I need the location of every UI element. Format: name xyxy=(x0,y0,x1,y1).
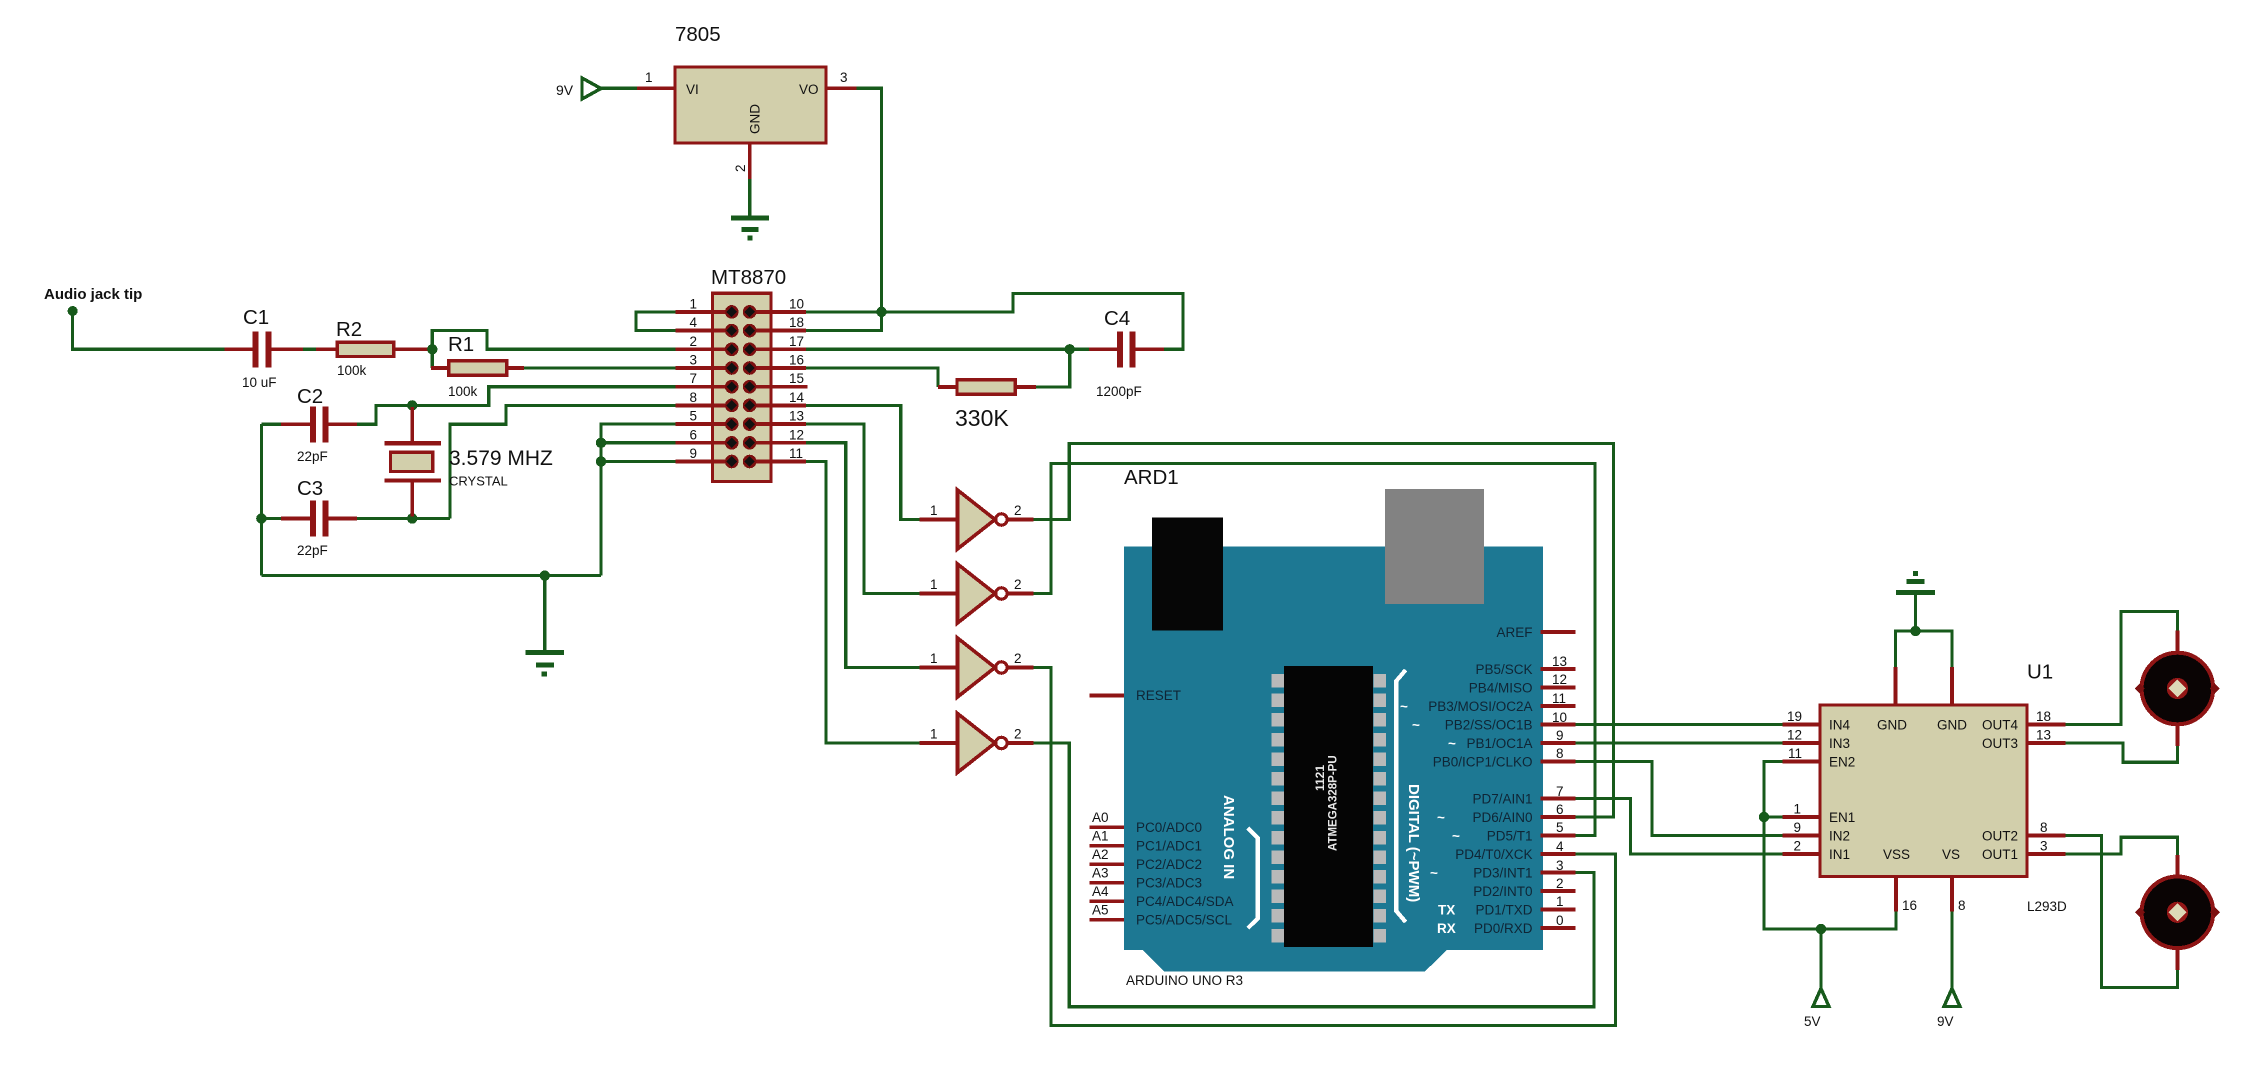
svg-text:19: 19 xyxy=(1787,709,1802,724)
pin A1 PC1/ADC1 xyxy=(1089,829,1202,854)
svg-text:A3: A3 xyxy=(1092,866,1109,881)
svg-text:PC1/ADC1: PC1/ADC1 xyxy=(1136,839,1202,854)
node L293D ground junction xyxy=(1910,626,1920,636)
wire C1 to R2 xyxy=(303,348,316,351)
svg-text:VSS: VSS xyxy=(1883,847,1910,862)
svg-text:PB3/MOSI/OC2A: PB3/MOSI/OC2A xyxy=(1428,699,1532,714)
svg-text:IN2: IN2 xyxy=(1829,829,1850,844)
L293D pin 16 VSS stub xyxy=(1896,877,1917,914)
svg-text:18: 18 xyxy=(2036,709,2051,724)
svg-text:2: 2 xyxy=(689,334,697,349)
wire ARD pin9 to L293D IN3 xyxy=(1576,741,1783,744)
svg-text:2: 2 xyxy=(733,164,748,172)
pin 8 PB0/ICP1/CLKO xyxy=(1433,746,1576,770)
svg-text:~: ~ xyxy=(1400,699,1408,714)
svg-text:7: 7 xyxy=(1556,784,1564,799)
svg-text:2: 2 xyxy=(1793,839,1801,854)
svg-text:C3: C3 xyxy=(297,477,323,500)
pin 0 PD0/RXD xyxy=(1437,913,1576,936)
svg-text:12: 12 xyxy=(1787,728,1802,743)
svg-text:EN1: EN1 xyxy=(1829,810,1855,825)
node Audio jack tip label xyxy=(44,286,142,303)
inverter U6 NOT gate 4 xyxy=(919,714,1033,773)
wire pin10 to C4 loop top xyxy=(806,293,1183,349)
wire ground rail xyxy=(261,574,601,577)
svg-text:GND: GND xyxy=(1877,718,1907,733)
pin A5 PC5/ADC5/SCL xyxy=(1089,903,1232,928)
wire pin14 to inverter1 input xyxy=(806,405,919,519)
wire pin1-pin4 U link xyxy=(636,312,675,331)
wire pin12 to inverter3 input xyxy=(806,443,919,668)
wire inverter1 output to ARD pin6 rail xyxy=(1034,444,1614,817)
svg-text:ATMEGA328P-PU: ATMEGA328P-PU xyxy=(1328,755,1340,851)
svg-text:16: 16 xyxy=(789,353,804,368)
wire pin13 to inverter2 input xyxy=(806,424,919,593)
wire inverter4 output to ARD pin3 rail xyxy=(1034,743,1595,1007)
L293D pin 11 EN2 stub xyxy=(1783,746,1821,762)
wire left vertical C2/C3 to ground rail xyxy=(260,424,263,575)
MT8870 pin 14 xyxy=(750,390,806,406)
pin A4 PC4/ADC4/SDA xyxy=(1089,884,1233,909)
inverter U3 NOT gate 1 xyxy=(919,490,1033,549)
svg-text:1: 1 xyxy=(1556,894,1564,909)
wire pin16 to 330K xyxy=(806,368,938,387)
MT8870 pin 17 xyxy=(750,334,806,350)
pin 4 PD4/T0/XCK xyxy=(1455,839,1575,862)
node EN1 junction xyxy=(1759,812,1769,822)
wire pin8 to crystal bottom row xyxy=(450,405,675,518)
svg-text:C2: C2 xyxy=(297,385,323,408)
power flag 9V motor supply xyxy=(1937,912,1960,1030)
svg-text:OUT2: OUT2 xyxy=(1982,829,2018,844)
svg-text:5: 5 xyxy=(689,409,697,424)
wire pin18 up to junction xyxy=(806,312,882,331)
L293D pin 1 EN1 stub xyxy=(1783,802,1821,818)
wire 9V to 7805 VI xyxy=(601,87,637,90)
svg-text:5: 5 xyxy=(1556,820,1564,835)
svg-text:10: 10 xyxy=(789,296,804,311)
svg-text:PC3/ADC3: PC3/ADC3 xyxy=(1136,876,1202,891)
svg-text:8: 8 xyxy=(1958,898,1966,913)
wire R1 to pin3 xyxy=(524,366,675,369)
label DIGITAL PWM xyxy=(1396,670,1422,922)
MT8870 pin 2 xyxy=(675,334,731,350)
pin RESET xyxy=(1089,688,1181,703)
node ground rail junction xyxy=(540,570,550,580)
svg-text:DIGITAL (~PWM): DIGITAL (~PWM) xyxy=(1405,784,1422,902)
svg-text:1121: 1121 xyxy=(1313,765,1327,791)
ground symbol below 7805 xyxy=(731,218,769,238)
svg-text:ARD1: ARD1 xyxy=(1124,466,1179,489)
svg-text:PC0/ADC0: PC0/ADC0 xyxy=(1136,820,1202,835)
wire inverter2 output to ARD pin5 rail xyxy=(1034,464,1596,836)
wire pin6 row xyxy=(601,441,675,444)
svg-text:5V: 5V xyxy=(1804,1014,1821,1029)
pin A0 PC0/ADC0 xyxy=(1089,810,1202,835)
wire audio jack to C1 xyxy=(73,311,225,349)
pin A3 PC3/ADC3 xyxy=(1089,866,1202,891)
pin 7 PD7/AIN1 xyxy=(1472,784,1575,807)
wire 7805 VO down to pin10 net xyxy=(857,88,882,312)
svg-text:~: ~ xyxy=(1412,718,1420,733)
capacitor C2 22pF xyxy=(261,385,356,464)
pin 2 PD2/INT0 xyxy=(1473,876,1575,899)
wire junction bump to pin2 xyxy=(432,331,675,350)
svg-text:VO: VO xyxy=(799,82,819,97)
svg-text:A5: A5 xyxy=(1092,903,1109,918)
svg-text:PD2/INT0: PD2/INT0 xyxy=(1473,884,1532,899)
svg-text:8: 8 xyxy=(689,390,697,405)
L293D pin 2 IN1 stub xyxy=(1783,839,1821,855)
svg-text:2: 2 xyxy=(1014,651,1022,666)
MT8870 pin 4 xyxy=(675,315,731,331)
svg-text:~: ~ xyxy=(1437,810,1445,825)
wire junction down to R1 xyxy=(431,349,434,368)
svg-text:1200pF: 1200pF xyxy=(1096,384,1142,399)
chip J1 MT8870 header xyxy=(711,266,786,482)
svg-text:PD6/AIN0: PD6/AIN0 xyxy=(1472,810,1532,825)
capacitor C4 1200pF xyxy=(1070,307,1164,399)
svg-text:9: 9 xyxy=(689,446,697,461)
regulator U2 7805 xyxy=(637,23,857,179)
svg-text:13: 13 xyxy=(2036,728,2051,743)
pin 5 PD5/T1 xyxy=(1452,820,1576,844)
wire EN1 stub link xyxy=(1764,815,1783,818)
svg-text:16: 16 xyxy=(1902,898,1917,913)
pin 1 PD1/TXD xyxy=(1438,894,1576,918)
svg-text:PB2/SS/OC1B: PB2/SS/OC1B xyxy=(1445,718,1533,733)
svg-text:PD5/T1: PD5/T1 xyxy=(1487,829,1533,844)
resistor R2 100k xyxy=(316,318,429,378)
svg-text:C1: C1 xyxy=(243,306,269,329)
wire OUT2 to motor2 bottom xyxy=(2066,836,2178,988)
svg-text:R1: R1 xyxy=(448,333,474,356)
wire OUT3 to motor1 bottom xyxy=(2066,743,2178,762)
MT8870 pin 10 xyxy=(750,296,806,312)
svg-text:10 uF: 10 uF xyxy=(242,375,277,390)
svg-text:Audio jack tip: Audio jack tip xyxy=(44,286,142,303)
svg-text:PD1/TXD: PD1/TXD xyxy=(1475,903,1532,918)
MT8870 pin 12 xyxy=(750,427,806,443)
svg-text:3: 3 xyxy=(2040,839,2048,854)
svg-text:IN1: IN1 xyxy=(1829,847,1850,862)
svg-text:TX: TX xyxy=(1438,903,1455,918)
svg-text:2: 2 xyxy=(1014,727,1022,742)
node crystal top junction xyxy=(407,400,417,410)
svg-text:~: ~ xyxy=(1452,829,1460,844)
MT8870 pin 15 xyxy=(750,371,808,387)
motor M1 xyxy=(2135,631,2220,746)
svg-text:9: 9 xyxy=(1556,728,1564,743)
chip U1 L293D xyxy=(1820,661,2067,915)
svg-text:IN4: IN4 xyxy=(1829,718,1851,733)
pin 10 PB2/SS/OC1B xyxy=(1412,710,1576,733)
svg-text:OUT1: OUT1 xyxy=(1982,847,2018,862)
svg-text:2: 2 xyxy=(1556,876,1564,891)
svg-text:3: 3 xyxy=(1556,858,1564,873)
pin A2 PC2/ADC2 xyxy=(1089,847,1202,872)
svg-text:PB0/ICP1/CLKO: PB0/ICP1/CLKO xyxy=(1433,755,1533,770)
svg-text:A2: A2 xyxy=(1092,847,1109,862)
svg-text:7805: 7805 xyxy=(675,23,721,46)
svg-text:CRYSTAL: CRYSTAL xyxy=(449,474,508,489)
svg-text:RX: RX xyxy=(1437,921,1456,936)
wire OUT1 to motor2 top xyxy=(2066,837,2178,855)
L293D pin 18 OUT4 stub xyxy=(2027,709,2066,725)
svg-text:22pF: 22pF xyxy=(297,543,328,558)
svg-text:12: 12 xyxy=(1552,672,1567,687)
L293D pin 9 IN2 stub xyxy=(1783,820,1821,836)
pin AREF xyxy=(1496,625,1575,640)
svg-text:GND: GND xyxy=(748,104,763,134)
wire L293D GND pins to ground xyxy=(1896,631,1953,667)
node 7805 output junction xyxy=(876,307,886,317)
wire pin9 row xyxy=(601,460,675,463)
board ARD1 Arduino Uno R3 xyxy=(1124,466,1543,988)
svg-text:100k: 100k xyxy=(448,384,478,399)
MT8870 pin 7 xyxy=(675,371,731,387)
svg-text:330K: 330K xyxy=(955,405,1009,431)
svg-text:22pF: 22pF xyxy=(297,449,328,464)
svg-text:PC5/ADC5/SCL: PC5/ADC5/SCL xyxy=(1136,913,1233,928)
wire 330K to junction xyxy=(1036,349,1070,387)
svg-text:OUT3: OUT3 xyxy=(1982,736,2018,751)
node 5V rail junction xyxy=(1816,924,1826,934)
svg-text:3.579 MHZ: 3.579 MHZ xyxy=(449,447,553,470)
MT8870 pin 16 xyxy=(750,353,806,369)
power flag 9V input xyxy=(556,78,601,99)
svg-text:RESET: RESET xyxy=(1136,688,1181,703)
svg-text:A0: A0 xyxy=(1092,810,1109,825)
wire ARD pin10 to L293D IN4 xyxy=(1576,723,1783,726)
wire MT8870 pins 5,6,9 common to ground rail xyxy=(601,424,675,575)
wire inverter3 output to ARD pin4 rail xyxy=(1034,668,1616,1026)
svg-text:C4: C4 xyxy=(1104,307,1130,330)
svg-text:15: 15 xyxy=(789,371,804,386)
wire EN2 EN1 to 5V rail xyxy=(1764,762,1896,930)
MT8870 pin 9 xyxy=(675,446,731,462)
svg-text:PB4/MISO: PB4/MISO xyxy=(1469,681,1533,696)
svg-text:6: 6 xyxy=(1556,802,1564,817)
svg-text:PD3/INT1: PD3/INT1 xyxy=(1473,866,1532,881)
label ANALOG IN xyxy=(1220,795,1258,928)
wire OUT4 to motor1 top xyxy=(2066,612,2178,725)
L293D pin 13 OUT3 stub xyxy=(2027,728,2066,744)
svg-text:12: 12 xyxy=(789,427,804,442)
svg-text:ARDUINO UNO R3: ARDUINO UNO R3 xyxy=(1126,973,1243,988)
node pin6 junction xyxy=(596,438,606,448)
svg-text:11: 11 xyxy=(789,446,803,461)
svg-text:PD7/AIN1: PD7/AIN1 xyxy=(1472,792,1532,807)
svg-text:1: 1 xyxy=(930,577,938,592)
svg-text:OUT4: OUT4 xyxy=(1982,718,2018,733)
L293D GND pin stubs top xyxy=(1896,667,1953,705)
svg-text:6: 6 xyxy=(689,427,697,442)
svg-text:GND: GND xyxy=(1937,718,1967,733)
svg-text:18: 18 xyxy=(789,315,804,330)
svg-text:2: 2 xyxy=(1014,577,1022,592)
svg-text:~: ~ xyxy=(1430,866,1438,881)
pin 11 PB3/MOSI/OC2A xyxy=(1400,691,1576,714)
svg-text:8: 8 xyxy=(1556,746,1564,761)
MT8870 pin 8 xyxy=(675,390,731,406)
svg-text:L293D: L293D xyxy=(2027,899,2067,914)
svg-text:PB1/OC1A: PB1/OC1A xyxy=(1466,736,1532,751)
wire 7805 pin2 to ground xyxy=(748,179,751,217)
svg-text:13: 13 xyxy=(789,409,804,424)
resistor R3 330K xyxy=(938,380,1036,431)
MT8870 pin 5 xyxy=(675,409,731,425)
svg-text:9V: 9V xyxy=(556,82,574,98)
MT8870 pin 18 xyxy=(750,315,806,331)
MT8870 pin 3 xyxy=(675,353,731,369)
pin 13 PB5/SCK xyxy=(1475,654,1575,677)
L293D pin 3 OUT1 stub xyxy=(2027,839,2066,855)
svg-text:VI: VI xyxy=(686,82,699,97)
svg-text:14: 14 xyxy=(789,390,805,405)
svg-text:1: 1 xyxy=(930,727,938,742)
svg-text:9V: 9V xyxy=(1937,1014,1954,1029)
svg-text:A4: A4 xyxy=(1092,884,1109,899)
wire ARD pin8 to L293D IN2 xyxy=(1576,762,1783,836)
L293D pin 19 IN4 stub xyxy=(1783,709,1821,725)
power flag 5V xyxy=(1804,929,1829,1029)
ground symbol below MT8870 xyxy=(525,576,564,674)
node C4/330K junction xyxy=(1065,344,1075,354)
svg-text:7: 7 xyxy=(689,371,697,386)
pin 9 PB1/OC1A xyxy=(1448,728,1576,751)
inverter U4 NOT gate 2 xyxy=(919,564,1033,623)
svg-text:9: 9 xyxy=(1793,820,1801,835)
svg-text:13: 13 xyxy=(1552,654,1567,669)
svg-text:PD0/RXD: PD0/RXD xyxy=(1474,921,1533,936)
svg-text:1: 1 xyxy=(930,651,938,666)
svg-text:2: 2 xyxy=(1014,503,1022,518)
wire pin11 to inverter4 input xyxy=(806,462,919,744)
svg-text:R2: R2 xyxy=(336,318,362,341)
svg-text:IN3: IN3 xyxy=(1829,736,1850,751)
capacitor C1 10uF xyxy=(224,306,303,390)
L293D pin 8 OUT2 stub xyxy=(2027,820,2066,836)
wire pin17 to C4 junction xyxy=(806,348,1070,351)
wire pin7 to crystal top and C2 xyxy=(357,387,676,425)
svg-text:1: 1 xyxy=(645,70,653,85)
svg-text:4: 4 xyxy=(689,315,697,330)
svg-text:1: 1 xyxy=(1793,802,1801,817)
pin 6 PD6/AIN0 xyxy=(1437,802,1576,825)
svg-text:PC2/ADC2: PC2/ADC2 xyxy=(1136,857,1202,872)
motor M2 xyxy=(2135,855,2220,970)
svg-text:11: 11 xyxy=(1788,746,1802,761)
node junction R2/R1/pin2 xyxy=(427,344,437,354)
pin 3 PD3/INT1 xyxy=(1430,858,1576,881)
svg-text:10: 10 xyxy=(1552,710,1567,725)
svg-text:8: 8 xyxy=(2040,820,2048,835)
node audio jack terminal dot xyxy=(68,306,78,316)
svg-text:3: 3 xyxy=(840,70,848,85)
svg-text:~: ~ xyxy=(1448,736,1456,751)
L293D pin 8 VS stub xyxy=(1952,877,1966,914)
MT8870 pin 13 xyxy=(750,409,806,425)
resistor R1 100k xyxy=(431,333,524,399)
svg-text:EN2: EN2 xyxy=(1829,755,1855,770)
svg-text:0: 0 xyxy=(1556,913,1564,928)
L293D pin 12 IN3 stub xyxy=(1783,728,1821,744)
wire ARD pin7 to L293D IN1 xyxy=(1576,799,1783,855)
svg-text:ANALOG IN: ANALOG IN xyxy=(1220,795,1237,879)
svg-text:AREF: AREF xyxy=(1496,625,1532,640)
node crystal bottom junction xyxy=(407,513,417,523)
svg-text:17: 17 xyxy=(789,334,804,349)
svg-text:3: 3 xyxy=(689,353,697,368)
svg-text:11: 11 xyxy=(1552,691,1566,706)
svg-text:100k: 100k xyxy=(337,363,367,378)
ground symbol above L293D xyxy=(1896,574,1935,632)
svg-text:MT8870: MT8870 xyxy=(711,266,786,289)
svg-text:4: 4 xyxy=(1556,839,1564,854)
chip ATMEGA328P-PU xyxy=(1272,666,1387,947)
pin 12 PB4/MISO xyxy=(1469,672,1576,696)
MT8870 pin 11 xyxy=(750,446,806,462)
MT8870 pin 6 xyxy=(675,427,731,443)
svg-text:PB5/SCK: PB5/SCK xyxy=(1475,662,1532,677)
svg-text:1: 1 xyxy=(930,503,938,518)
svg-text:U1: U1 xyxy=(2027,661,2053,684)
svg-text:1: 1 xyxy=(689,296,697,311)
svg-text:PD4/T0/XCK: PD4/T0/XCK xyxy=(1455,847,1532,862)
wire C3 to crystal bottom junction and pin8 drop xyxy=(357,517,450,520)
node pin9 junction xyxy=(596,456,606,466)
svg-text:PC4/ADC4/SDA: PC4/ADC4/SDA xyxy=(1136,894,1234,909)
svg-text:VS: VS xyxy=(1942,847,1960,862)
svg-text:A1: A1 xyxy=(1092,829,1109,844)
MT8870 pin 1 xyxy=(675,296,731,312)
MT8870 pads xyxy=(725,305,757,468)
node C3 left junction xyxy=(256,513,266,523)
crystal X1 3.579 MHZ xyxy=(384,407,553,517)
capacitor C3 22pF xyxy=(261,477,356,558)
inverter U5 NOT gate 3 xyxy=(919,638,1033,697)
